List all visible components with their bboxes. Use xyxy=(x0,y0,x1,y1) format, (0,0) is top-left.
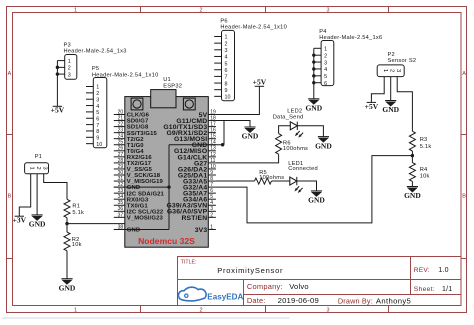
power +3V under P1 xyxy=(13,216,27,225)
svg-text:GND: GND xyxy=(29,220,46,229)
svg-text:2: 2 xyxy=(225,41,228,47)
svg-text:GND: GND xyxy=(382,105,399,114)
svg-text:TITLE:: TITLE: xyxy=(181,259,197,265)
op-amp U1 ESP32 Nodemcu 32S module body xyxy=(125,77,209,247)
svg-text:100ohms: 100ohms xyxy=(259,175,284,181)
ground under S2 xyxy=(382,101,399,115)
svg-text:1: 1 xyxy=(382,69,388,72)
wire S2 pin2 to GND xyxy=(390,77,392,101)
wire +5V to U1 pin19 xyxy=(216,86,260,114)
wire R2 to GND xyxy=(66,251,68,279)
ground under R2 xyxy=(59,279,76,293)
svg-text:1: 1 xyxy=(324,47,327,53)
svg-text:3: 3 xyxy=(68,72,71,78)
svg-text:37: 37 xyxy=(118,212,124,218)
svg-text:+5V: +5V xyxy=(365,102,379,111)
svg-text:1/1: 1/1 xyxy=(442,286,452,293)
EasyEDA logo xyxy=(178,287,206,301)
svg-text:8: 8 xyxy=(225,81,228,87)
svg-text:1: 1 xyxy=(210,224,213,230)
svg-text:GND: GND xyxy=(305,104,322,113)
junction GND pin32 xyxy=(167,185,170,188)
svg-text:10: 10 xyxy=(96,142,102,148)
resistor R2 10k xyxy=(64,232,82,251)
connector P1 xyxy=(25,154,49,174)
resistor R3 5.1k xyxy=(409,131,431,151)
junction P4 pin4 xyxy=(312,67,315,70)
svg-text:P6: P6 xyxy=(220,19,227,25)
wire S2 pin3 to R3 xyxy=(397,77,412,132)
svg-text:2: 2 xyxy=(35,166,41,169)
wire GND pin38 strike xyxy=(114,228,169,230)
svg-text:5: 5 xyxy=(96,110,99,116)
header P4 xyxy=(314,29,383,87)
svg-text:2: 2 xyxy=(68,66,71,72)
power +5V under P3 xyxy=(51,106,65,115)
svg-text:B: B xyxy=(462,194,466,200)
sensor P2 S2 xyxy=(377,52,416,77)
svg-text:Sheet:: Sheet: xyxy=(414,286,435,293)
svg-text:2: 2 xyxy=(96,91,99,97)
junction P4 pin6 xyxy=(312,81,315,84)
svg-text:REV:: REV: xyxy=(414,267,430,274)
wire R1 to R2 xyxy=(66,218,68,232)
LED2 xyxy=(273,109,304,138)
svg-text:Data_Send: Data_Send xyxy=(273,114,304,120)
svg-text:Connected: Connected xyxy=(288,166,318,172)
junction P4 pin5 xyxy=(312,74,315,77)
svg-text:Company:: Company: xyxy=(247,282,283,291)
wire R4 to GND xyxy=(411,181,413,186)
svg-text:1: 1 xyxy=(68,59,71,65)
svg-text:P3: P3 xyxy=(64,42,71,48)
wire GND pin14 strike xyxy=(169,144,223,146)
power +5V near P6 xyxy=(253,78,267,87)
resistor R1 5.1k xyxy=(64,199,84,217)
svg-text:Date:: Date: xyxy=(247,296,266,305)
svg-text:RST/EN: RST/EN xyxy=(181,215,207,222)
wire R5 to LED1 xyxy=(272,180,290,182)
svg-text:4: 4 xyxy=(96,104,99,110)
svg-text:1: 1 xyxy=(96,85,99,91)
svg-text:1.0: 1.0 xyxy=(438,267,448,274)
svg-text:2: 2 xyxy=(389,69,395,72)
svg-text:1: 1 xyxy=(225,35,228,41)
svg-text:8: 8 xyxy=(96,129,99,135)
svg-text:R1: R1 xyxy=(72,204,80,210)
wire P4 pins to GND xyxy=(313,48,315,99)
svg-text:2: 2 xyxy=(200,7,203,13)
svg-text:EasyEDA: EasyEDA xyxy=(207,292,243,301)
svg-text:3: 3 xyxy=(225,48,228,54)
resistor R6 100ohms xyxy=(276,134,309,155)
junction P3 pin3 xyxy=(56,72,59,75)
svg-text:100ohms: 100ohms xyxy=(283,146,308,152)
ground under LED1 xyxy=(308,191,325,205)
wire P3 pin1 to +5V xyxy=(56,61,58,107)
wire R3 to R4 xyxy=(411,151,413,163)
svg-text:1: 1 xyxy=(74,7,77,13)
svg-text:ProximitySensor: ProximitySensor xyxy=(217,266,283,275)
svg-text:5.1k: 5.1k xyxy=(72,210,84,216)
svg-text:R4: R4 xyxy=(420,167,428,173)
wire GND pin32 strike xyxy=(114,186,169,188)
svg-text:P5: P5 xyxy=(92,66,99,72)
resistor R4 10k xyxy=(409,163,429,182)
wire junction to U1 pin37 xyxy=(67,223,125,225)
header P6 xyxy=(214,19,287,101)
svg-text:GND: GND xyxy=(308,196,325,205)
wire P1 pin1 to +3V xyxy=(19,174,30,216)
svg-text:5.1k: 5.1k xyxy=(420,144,432,150)
svg-text:10k: 10k xyxy=(420,174,430,180)
junction R1 R2 xyxy=(65,222,68,225)
svg-text:6: 6 xyxy=(96,116,99,122)
svg-text:6: 6 xyxy=(324,81,327,87)
svg-text:+5V: +5V xyxy=(51,106,65,115)
svg-text:4: 4 xyxy=(225,55,228,61)
svg-text:R3: R3 xyxy=(420,137,428,143)
svg-text:+3V: +3V xyxy=(13,216,27,225)
svg-text:B: B xyxy=(8,194,12,200)
wire LED2 to GND xyxy=(297,126,323,137)
U1 right pins 19-1: stubs, numbers, names xyxy=(163,109,216,233)
ground near U1 pin18 xyxy=(242,127,259,141)
svg-text:1: 1 xyxy=(74,307,77,313)
svg-text:2: 2 xyxy=(210,212,213,218)
svg-text:9: 9 xyxy=(225,88,228,94)
svg-text:6: 6 xyxy=(225,68,228,74)
svg-text:+5V: +5V xyxy=(253,78,267,87)
wire pin18 down to pin14 xyxy=(223,121,225,145)
svg-text:U1: U1 xyxy=(163,77,171,83)
title block xyxy=(178,257,462,306)
wire LED1 to GND xyxy=(297,181,317,191)
svg-text:GND: GND xyxy=(404,191,421,200)
svg-text:3: 3 xyxy=(42,166,48,169)
svg-text:GND: GND xyxy=(242,132,259,141)
svg-text:3V3: 3V3 xyxy=(195,227,208,234)
junction P3 pin2 xyxy=(56,66,59,69)
header P3 xyxy=(57,42,126,79)
svg-text:GND: GND xyxy=(59,283,76,292)
wire U1 pin11 to R6 xyxy=(216,154,279,163)
svg-text:10k: 10k xyxy=(72,242,82,248)
svg-text:Header-Male-2.54_1x3: Header-Male-2.54_1x3 xyxy=(64,49,127,55)
svg-text:9: 9 xyxy=(96,136,99,142)
svg-text:2: 2 xyxy=(200,307,203,313)
junction P4 pin2 xyxy=(312,53,315,56)
junction R3 R4 xyxy=(411,154,414,157)
svg-text:V_MOSI/G23: V_MOSI/G23 xyxy=(127,215,164,221)
svg-text:GND: GND xyxy=(315,141,332,150)
svg-text:ESP32: ESP32 xyxy=(163,84,182,90)
junction P4 pin3 xyxy=(312,60,315,63)
svg-text:3: 3 xyxy=(327,307,330,313)
svg-text:2019-06-09: 2019-06-09 xyxy=(278,296,319,305)
ground under R4 xyxy=(404,187,421,201)
wire P1 pin3 to R1 xyxy=(44,174,67,200)
wire pin18 to GND xyxy=(216,121,250,127)
header P5 xyxy=(86,66,158,148)
ground under P4 xyxy=(305,99,322,113)
svg-text:A: A xyxy=(8,71,12,77)
wire R6 to LED2 xyxy=(279,126,291,134)
ground under LED2 xyxy=(315,137,332,151)
wire GND vertical inside U1 xyxy=(168,145,170,230)
power +5V under S2 xyxy=(365,102,379,111)
svg-text:GND: GND xyxy=(127,228,140,234)
svg-text:3: 3 xyxy=(395,69,401,72)
svg-text:3: 3 xyxy=(327,7,330,13)
svg-text:2: 2 xyxy=(324,53,327,59)
svg-text:7: 7 xyxy=(96,123,99,129)
svg-text:Volvo: Volvo xyxy=(289,282,309,291)
resistor R5 100ohms xyxy=(255,170,285,184)
LED1 xyxy=(288,161,318,193)
ground under P1 xyxy=(29,215,46,229)
svg-text:1: 1 xyxy=(29,166,35,169)
svg-text:Anthony5: Anthony5 xyxy=(376,296,411,305)
svg-text:5: 5 xyxy=(324,74,327,80)
svg-text:Nodemcu 32S: Nodemcu 32S xyxy=(138,236,195,246)
junction GND pin14 xyxy=(221,143,224,146)
svg-text:10: 10 xyxy=(225,95,231,101)
wire R3R4 junction to U1 pin7 xyxy=(216,156,413,223)
wire P1 pin2 to GND xyxy=(36,174,38,215)
svg-text:4: 4 xyxy=(324,67,327,73)
svg-text:Drawn By:: Drawn By: xyxy=(338,296,373,305)
svg-text:Header-Male-2.54_1x10: Header-Male-2.54_1x10 xyxy=(220,25,287,31)
svg-text:3: 3 xyxy=(96,97,99,103)
svg-text:7: 7 xyxy=(225,75,228,81)
wire S2 pin1 to +5V xyxy=(371,77,384,103)
U1 left pins 20-38: stubs, numbers, names xyxy=(114,109,165,233)
svg-text:P1: P1 xyxy=(35,154,42,160)
svg-text:Sensor S2: Sensor S2 xyxy=(388,58,417,64)
wire U1 pin8 to R5 xyxy=(216,180,255,182)
svg-text:A: A xyxy=(462,71,466,77)
svg-text:5: 5 xyxy=(225,61,228,67)
svg-text:3: 3 xyxy=(324,60,327,66)
svg-text:P4: P4 xyxy=(319,29,326,35)
